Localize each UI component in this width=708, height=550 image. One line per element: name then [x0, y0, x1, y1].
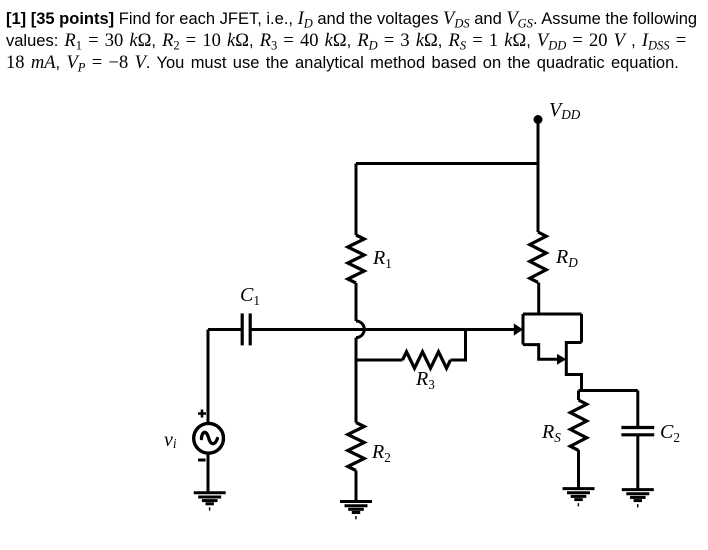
wire gate from C1 to JFET: [250, 328, 514, 331]
svg-text:C2: C2: [660, 421, 680, 445]
wire C2 bottom: [636, 436, 639, 490]
source vi circle: [194, 423, 224, 453]
resistor R3: [403, 352, 451, 368]
ground below C2: [622, 490, 654, 508]
wire R1 bottom to hop: [355, 283, 358, 321]
source vi sine: [201, 432, 217, 443]
wire VDD vertical down to RD: [537, 120, 540, 233]
wire vi to ground: [207, 453, 210, 493]
svg-text:C1: C1: [240, 284, 260, 308]
resistor R1: [348, 235, 364, 283]
svg-text:R2: R2: [371, 441, 391, 465]
wire R3 right lead up to gate wire: [451, 330, 466, 361]
capacitor C1 plates: [241, 313, 244, 345]
resistor R2: [348, 423, 364, 471]
wire C2 top lead: [636, 391, 639, 427]
problem statement line 2: [6, 30, 686, 57]
JFET drain internal step: [523, 345, 558, 360]
wire hop over gate wire: [356, 321, 364, 338]
wire input branch vertical: [207, 330, 210, 425]
svg-text:VDD: VDD: [549, 99, 581, 122]
wire source node to C2: [579, 389, 638, 392]
wire R3 left lead: [356, 359, 403, 362]
wire drain lead: [537, 283, 540, 315]
wire top rail: [356, 162, 538, 165]
JFET body top edge: [523, 313, 582, 316]
ground below vi: [194, 493, 226, 511]
wire R2 bottom: [355, 471, 358, 502]
JFET source internal step: [566, 343, 581, 391]
node VDD dot: [534, 115, 543, 124]
capacitor C2 plates: [621, 426, 654, 429]
resistor RS: [570, 400, 586, 450]
svg-text:R1: R1: [372, 247, 392, 271]
wire Rs top lead: [577, 391, 580, 401]
svg-text:vi: vi: [164, 429, 177, 451]
wire Rs bottom: [577, 450, 580, 489]
JFET body left edge: [522, 314, 525, 345]
ground below RS: [563, 489, 595, 507]
wire R1 branch top: [355, 164, 358, 236]
JFET gate arrowhead: [514, 323, 523, 335]
capacitor C1 left wire: [208, 328, 242, 331]
svg-text:RS: RS: [541, 421, 561, 445]
JFET source arrowhead: [557, 354, 566, 365]
ground below R2: [340, 502, 372, 520]
svg-text:R3: R3: [415, 368, 435, 392]
label minus: [198, 459, 206, 462]
JFET body right edge: [580, 314, 583, 343]
wire divider node to R2: [355, 338, 358, 423]
problem statement line 1: [6, 8, 697, 35]
label plus: [198, 410, 206, 418]
svg-text:RD: RD: [555, 246, 578, 270]
problem statement line 3: [6, 52, 679, 79]
resistor RD: [530, 232, 546, 282]
